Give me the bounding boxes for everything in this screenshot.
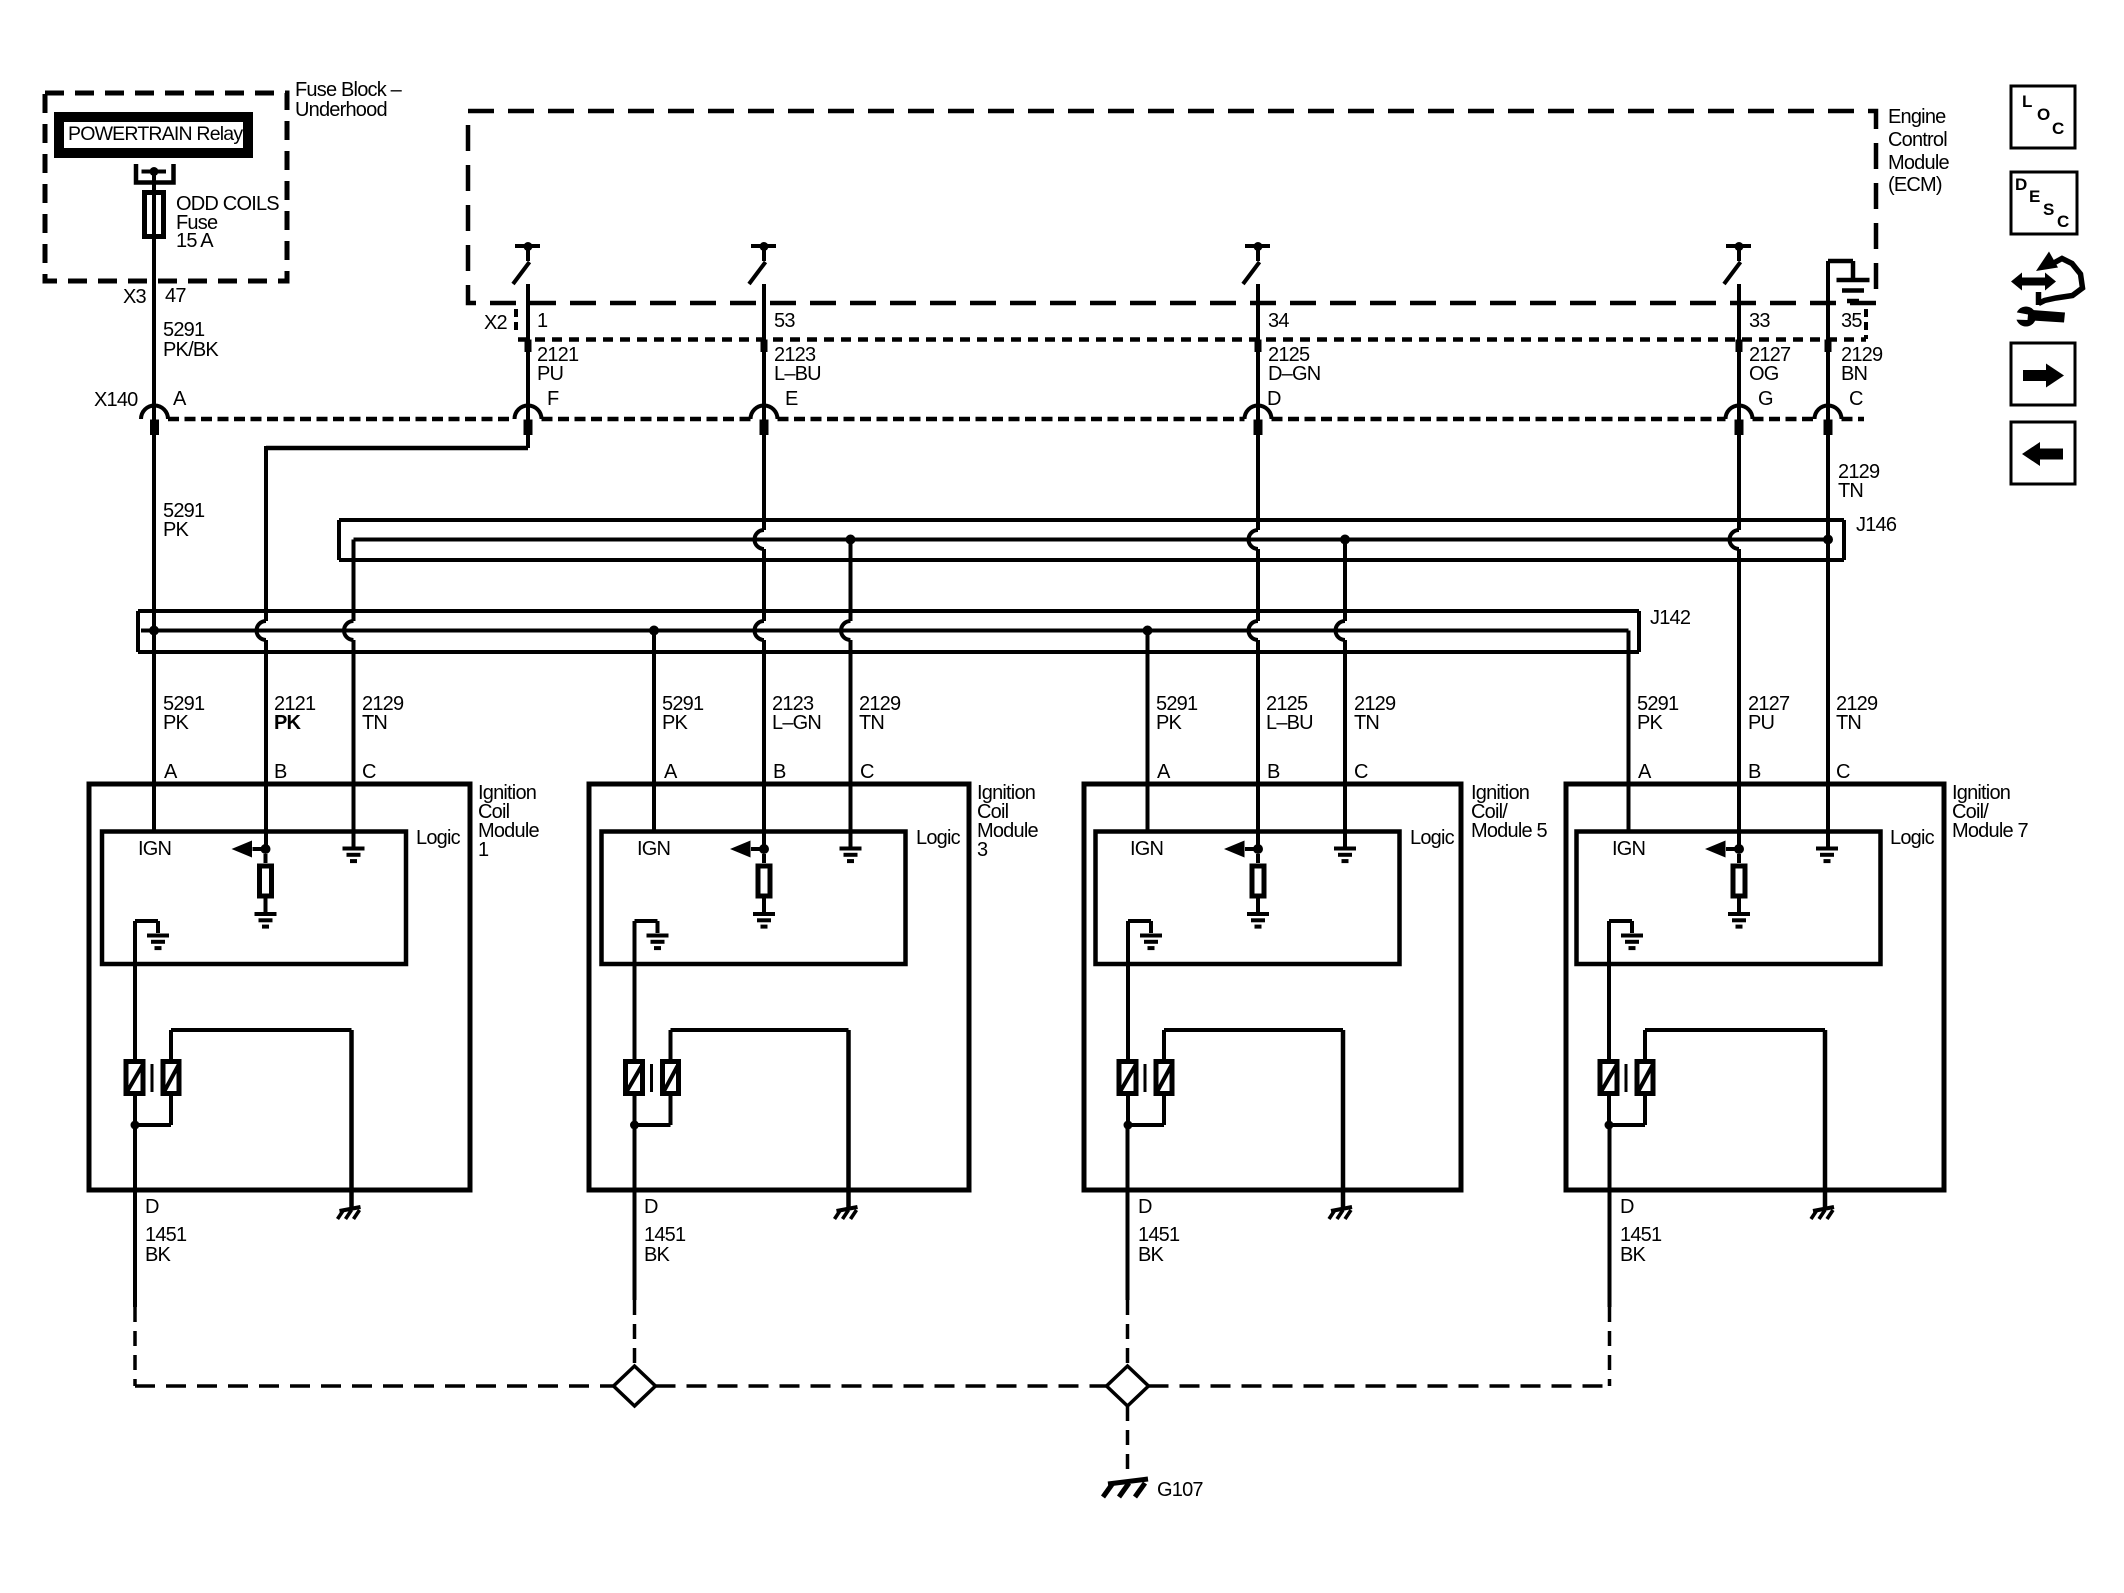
svg-text:D–GN: D–GN xyxy=(1268,363,1320,385)
svg-text:C: C xyxy=(1354,761,1368,783)
junction dot J142 module 5 xyxy=(1143,626,1153,636)
splice pack J142 xyxy=(138,609,1639,613)
wire 2125 from ECM pin 34 to module 5 pin B xyxy=(1256,284,1260,530)
svg-text:G107: G107 xyxy=(1157,1479,1203,1501)
svg-text:53: 53 xyxy=(774,310,795,332)
ECM dashed box xyxy=(468,111,1876,303)
svg-text:Control: Control xyxy=(1888,129,1947,151)
junction dot J142 module 3 xyxy=(649,626,659,636)
relay contact symbol xyxy=(136,164,174,183)
module 7 internal left branch + ground xyxy=(1609,919,1632,923)
ECM driver switch pin 33 xyxy=(1726,244,1751,248)
svg-text:BK: BK xyxy=(644,1244,671,1266)
splice diamond at module 5 xyxy=(1107,1366,1149,1406)
wire 2123 from ECM pin 53 to module 3 pin B xyxy=(762,284,766,530)
svg-text:A: A xyxy=(664,761,678,783)
svg-text:(ECM): (ECM) xyxy=(1888,174,1942,196)
ground under resistor module 1 xyxy=(255,912,277,916)
junction dot J142 module 1 xyxy=(149,626,159,636)
svg-text:3: 3 xyxy=(977,839,988,861)
svg-text:G: G xyxy=(1758,388,1773,410)
icon exchange arrows with wrench xyxy=(2011,252,2083,327)
wire 2121 PK drop to module 1 pin B xyxy=(264,446,268,621)
module 5 outer box xyxy=(1084,784,1461,1190)
svg-text:C: C xyxy=(1849,388,1863,410)
svg-text:A: A xyxy=(173,388,187,410)
svg-text:PU: PU xyxy=(1748,712,1774,734)
icon box DESC xyxy=(2011,172,2077,234)
svg-text:PK: PK xyxy=(662,712,689,734)
svg-text:A: A xyxy=(164,761,178,783)
svg-text:Logic: Logic xyxy=(916,827,961,849)
wire 1451 BK module 1 pin D xyxy=(133,1125,137,1307)
svg-text:A: A xyxy=(1157,761,1171,783)
module 1 coil primary wire xyxy=(133,921,137,1059)
X140 connector pin C xyxy=(1815,406,1842,420)
fuse block - underhood dashed box xyxy=(45,93,287,281)
ground at pin C module 5 xyxy=(1334,847,1356,851)
module 5 ignition coil windings xyxy=(1119,1062,1136,1094)
ground under resistor module 7 xyxy=(1728,912,1750,916)
svg-text:1: 1 xyxy=(478,839,489,861)
ground under resistor module 3 xyxy=(753,912,775,916)
jog wire 2121 to module 1 pin B xyxy=(266,446,528,451)
X2 pin stub at x=1739 xyxy=(1736,340,1743,353)
svg-text:TN: TN xyxy=(362,712,387,734)
X2 connector right tick xyxy=(1864,309,1868,339)
svg-text:Logic: Logic xyxy=(416,827,461,849)
svg-text:E: E xyxy=(785,388,798,410)
J142 internal wire 5291 PK xyxy=(141,629,1629,633)
module 7 coil bottom connections xyxy=(1607,1096,1611,1125)
svg-text:X2: X2 xyxy=(484,312,508,334)
junction dot module 3 pin D xyxy=(630,1121,639,1130)
module 5 pin B control: dot, arrow, resistor, ground xyxy=(1253,844,1263,854)
wire 2127 from ECM pin 33 to module 7 pin B xyxy=(1737,284,1741,530)
module 3 ignition coil windings xyxy=(626,1062,643,1094)
wire 2129 TN drop to module 1 pin C xyxy=(352,540,356,622)
chassis ground below module 5 xyxy=(1331,1207,1352,1211)
svg-text:PK/BK: PK/BK xyxy=(163,339,219,361)
svg-text:D: D xyxy=(145,1196,159,1218)
dashed ground wire module 5 xyxy=(1126,1300,1130,1365)
ECM driver switch pin 1 xyxy=(515,244,540,248)
wire 2129 TN drop to module 5 pin C xyxy=(1343,540,1347,622)
svg-text:IGN: IGN xyxy=(1130,838,1163,860)
svg-text:L–BU: L–BU xyxy=(1266,712,1313,734)
dashed wire to G107 xyxy=(1126,1406,1130,1478)
splice diamond at module 3 xyxy=(614,1366,656,1406)
svg-text:Underhood: Underhood xyxy=(295,99,387,121)
dashed ground wire module 3 xyxy=(633,1300,637,1365)
fuse ODD COILS 15 A xyxy=(145,193,164,237)
svg-text:L: L xyxy=(2022,92,2032,111)
X140 connector pin F xyxy=(515,406,542,420)
junction dot module 5 pin D xyxy=(1124,1121,1133,1130)
svg-text:Module: Module xyxy=(1888,152,1949,174)
junction dot module 7 pin D xyxy=(1605,1121,1614,1130)
wire 1451 BK module 7 pin D xyxy=(1608,1125,1612,1307)
svg-text:O: O xyxy=(2037,105,2050,124)
module 3 pin B control: dot, arrow, resistor, ground xyxy=(759,844,769,854)
svg-text:33: 33 xyxy=(1749,310,1770,332)
svg-text:PK: PK xyxy=(163,519,190,541)
svg-text:X3: X3 xyxy=(123,286,147,308)
junction dot module 1 pin D xyxy=(131,1121,140,1130)
module 7 pin B control: dot, arrow, resistor, ground xyxy=(1734,844,1744,854)
X2 connector left tick xyxy=(514,309,518,333)
module 3 internal left branch + ground xyxy=(635,919,658,923)
module 1 pin B control: dot, arrow, resistor, ground xyxy=(261,844,271,854)
svg-text:D: D xyxy=(1138,1196,1152,1218)
svg-text:D: D xyxy=(1267,388,1281,410)
svg-text:Module 5: Module 5 xyxy=(1471,820,1548,842)
wire 5291 PK drop to module 7 pin A xyxy=(1627,631,1631,832)
module 5 internal left branch + ground xyxy=(1128,919,1151,923)
ground G107 xyxy=(1108,1479,1148,1484)
chassis ground below module 7 xyxy=(1813,1207,1834,1211)
svg-text:L–BU: L–BU xyxy=(774,363,821,385)
ECM driver switch pin 34 xyxy=(1245,244,1270,248)
module 3 secondary wire to ground xyxy=(669,1030,673,1059)
svg-text:BK: BK xyxy=(145,1244,172,1266)
wire 2129 TN drop to module 3 pin C xyxy=(849,540,853,622)
module 3 coil primary wire xyxy=(633,921,637,1059)
module 1 coil bottom connections xyxy=(133,1096,137,1125)
J146 internal wire 2129 TN xyxy=(354,538,1829,542)
svg-text:BK: BK xyxy=(1620,1244,1647,1266)
dashed ground wire from module 1 xyxy=(133,1307,137,1386)
svg-text:C: C xyxy=(2052,119,2064,138)
ground under resistor module 5 xyxy=(1247,912,1269,916)
svg-text:BK: BK xyxy=(1138,1244,1165,1266)
icon box left arrow xyxy=(2011,422,2075,484)
svg-text:F: F xyxy=(547,388,559,410)
dashed ground wire module 7 xyxy=(1608,1307,1612,1386)
ground at pin C module 1 xyxy=(343,847,365,851)
dashed ground wire between splices xyxy=(656,1384,1107,1388)
svg-text:B: B xyxy=(1267,761,1280,783)
module 3 coil bottom connections xyxy=(633,1096,637,1125)
svg-text:PK: PK xyxy=(163,712,190,734)
svg-text:A: A xyxy=(1638,761,1652,783)
svg-text:D: D xyxy=(2015,175,2027,194)
svg-text:1451: 1451 xyxy=(644,1224,686,1246)
svg-text:S: S xyxy=(2043,200,2054,219)
splice pack J146 xyxy=(339,518,1844,522)
ECM internal ground (pin 35) xyxy=(1828,259,1853,264)
svg-text:TN: TN xyxy=(1836,712,1861,734)
svg-text:J142: J142 xyxy=(1650,607,1691,629)
svg-text:B: B xyxy=(1748,761,1761,783)
svg-text:L–GN: L–GN xyxy=(772,712,821,734)
svg-text:OG: OG xyxy=(1749,363,1779,385)
X2 pin stub at x=764 xyxy=(761,340,768,353)
svg-text:TN: TN xyxy=(1354,712,1379,734)
junction dot J146 right end xyxy=(1823,535,1833,545)
wire 5291 PK drop to module 3 pin A xyxy=(652,631,656,832)
svg-text:PK: PK xyxy=(1637,712,1664,734)
module 3 logic box xyxy=(602,832,906,965)
svg-text:5291: 5291 xyxy=(163,319,205,341)
X2 connector dotted row xyxy=(518,337,1866,342)
X140 connector dotted row xyxy=(168,417,515,422)
wire 1451 BK module 3 pin D xyxy=(633,1125,637,1300)
module 7 coil primary wire xyxy=(1607,921,1611,1059)
svg-text:J146: J146 xyxy=(1856,514,1897,536)
chassis ground below module 3 xyxy=(837,1207,858,1211)
svg-text:X140: X140 xyxy=(94,389,138,411)
module 3 outer box xyxy=(589,784,969,1190)
svg-text:TN: TN xyxy=(1838,480,1863,502)
svg-text:IGN: IGN xyxy=(138,838,171,860)
svg-text:Engine: Engine xyxy=(1888,106,1946,128)
svg-text:PU: PU xyxy=(537,363,563,385)
module 1 logic box xyxy=(102,832,406,965)
module 5 logic box xyxy=(1096,832,1400,965)
svg-text:15 A: 15 A xyxy=(176,230,214,252)
svg-text:IGN: IGN xyxy=(1612,838,1645,860)
module 1 outer box xyxy=(89,784,470,1190)
svg-text:1451: 1451 xyxy=(1620,1224,1662,1246)
svg-text:Logic: Logic xyxy=(1890,827,1935,849)
wire 2121 from ECM pin 1 down to jog xyxy=(526,284,530,448)
svg-text:D: D xyxy=(1620,1196,1634,1218)
svg-text:35: 35 xyxy=(1841,310,1862,332)
icon box LOC xyxy=(2011,86,2075,148)
X140 connector pin A xyxy=(141,406,168,420)
svg-text:E: E xyxy=(2029,187,2040,206)
module 1 ignition coil windings xyxy=(126,1062,143,1094)
ground at pin C module 7 xyxy=(1816,847,1838,851)
svg-text:BN: BN xyxy=(1841,363,1867,385)
wire 1451 BK module 5 pin D xyxy=(1126,1125,1130,1300)
svg-text:PK: PK xyxy=(1156,712,1183,734)
module 1 internal left branch + ground xyxy=(135,919,158,923)
POWERTRAIN relay box xyxy=(59,117,248,153)
wire 5291 PK drop to module 5 pin A xyxy=(1146,631,1150,832)
chassis ground below module 1 xyxy=(340,1207,361,1211)
junction dot J146 module 3 xyxy=(846,535,856,545)
wire 5291 PK from relay to module 1 pin A xyxy=(152,172,156,832)
module 5 secondary wire to ground xyxy=(1162,1030,1166,1059)
svg-text:C: C xyxy=(1836,761,1850,783)
module 7 logic box xyxy=(1577,832,1881,965)
svg-text:Module 7: Module 7 xyxy=(1952,820,2029,842)
module 7 outer box xyxy=(1566,784,1944,1190)
X140 connector pin D xyxy=(1245,406,1272,420)
X140 connector pin G xyxy=(1726,406,1753,420)
svg-text:1: 1 xyxy=(537,310,548,332)
module 7 secondary wire to ground xyxy=(1643,1030,1647,1059)
svg-text:C: C xyxy=(860,761,874,783)
svg-text:Fuse Block –: Fuse Block – xyxy=(295,79,403,101)
svg-text:C: C xyxy=(362,761,376,783)
svg-text:C: C xyxy=(2057,212,2069,231)
svg-text:47: 47 xyxy=(165,285,186,307)
svg-text:B: B xyxy=(773,761,786,783)
wire 2129 TN/BN from ECM ground to module 7 pin C xyxy=(1826,261,1830,847)
ECM driver switch pin 53 xyxy=(751,244,776,248)
svg-text:D: D xyxy=(644,1196,658,1218)
X2 pin stub at x=1828 xyxy=(1825,340,1832,353)
junction dot J146 module 5 xyxy=(1340,535,1350,545)
svg-text:TN: TN xyxy=(859,712,884,734)
svg-text:IGN: IGN xyxy=(637,838,670,860)
ground at pin C module 3 xyxy=(840,847,862,851)
module 7 ignition coil windings xyxy=(1600,1062,1617,1094)
svg-text:B: B xyxy=(274,761,287,783)
icon box right arrow xyxy=(2011,343,2075,405)
svg-text:POWERTRAIN Relay: POWERTRAIN Relay xyxy=(68,123,243,145)
module 5 coil bottom connections xyxy=(1126,1096,1130,1125)
svg-text:PK: PK xyxy=(274,712,302,734)
svg-text:Logic: Logic xyxy=(1410,827,1455,849)
module 1 secondary wire to ground xyxy=(169,1030,173,1059)
svg-text:34: 34 xyxy=(1268,310,1289,332)
svg-text:1451: 1451 xyxy=(145,1224,187,1246)
module 5 coil primary wire xyxy=(1126,921,1130,1059)
X140 connector pin E xyxy=(751,406,778,420)
svg-text:1451: 1451 xyxy=(1138,1224,1180,1246)
X2 pin stub at x=528 xyxy=(525,340,532,353)
dashed ground wire to module 7 xyxy=(1149,1384,1610,1388)
X2 pin stub at x=1258 xyxy=(1255,340,1262,353)
